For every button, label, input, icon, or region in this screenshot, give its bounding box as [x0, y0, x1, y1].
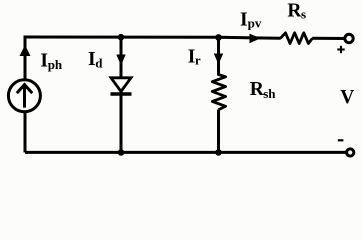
- svg-text:V: V: [340, 87, 354, 108]
- svg-text:ph: ph: [48, 57, 63, 72]
- svg-text:s: s: [301, 6, 306, 21]
- svg-text:I: I: [240, 9, 248, 30]
- svg-text:r: r: [195, 52, 201, 67]
- svg-text:pv: pv: [248, 16, 262, 31]
- svg-text:d: d: [95, 55, 103, 70]
- svg-text:sh: sh: [263, 86, 276, 101]
